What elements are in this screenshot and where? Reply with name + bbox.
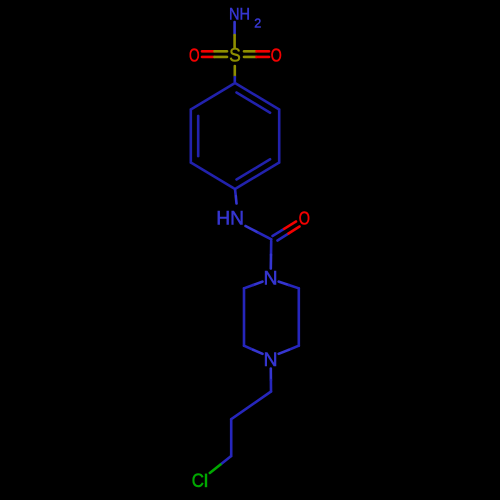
wire bond C-N1 [269, 241, 272, 269]
piperazine ring [244, 282, 299, 354]
wire bond S-C1 [234, 66, 237, 83]
double bond S=O left [202, 51, 227, 57]
svg-text:HN: HN [216, 208, 244, 230]
wire bond C7-C8 [231, 392, 271, 420]
wire bond C4-N amide [235, 189, 237, 204]
svg-text:O: O [189, 44, 200, 65]
wire bond N-C carbonyl [246, 226, 272, 239]
svg-text:S: S [229, 44, 241, 66]
sulfonamide N label NH2 [229, 6, 261, 31]
double bond S=O right [244, 51, 269, 57]
wire bond N-S [233, 22, 236, 48]
svg-text:NH: NH [229, 6, 250, 24]
wire bond N2-C7 [269, 369, 272, 392]
svg-text:2: 2 [254, 16, 261, 30]
svg-text:O: O [271, 44, 282, 65]
wire bond C8-C9 [230, 419, 233, 456]
wire bond C9-Cl [210, 456, 231, 473]
chlorine Cl label [192, 470, 207, 492]
benzene ring [191, 83, 279, 189]
svg-text:O: O [299, 207, 310, 228]
double bond C=O [273, 222, 300, 241]
svg-text:N: N [264, 267, 278, 289]
svg-text:C: C [192, 470, 204, 492]
